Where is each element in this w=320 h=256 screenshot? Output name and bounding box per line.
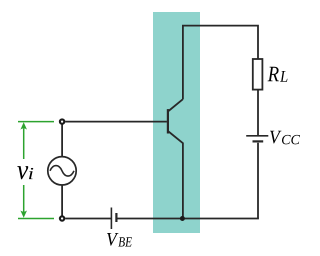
wire: base from input terminal to transistor (65, 121, 167, 123)
transistor Q1 collector lead (168, 99, 183, 111)
battery VBE plate - (short thick) (115, 213, 117, 222)
transistor Q1 base bar (167, 109, 169, 133)
label vi-i (29, 168, 33, 179)
resistor RL (253, 59, 263, 90)
label VCC-V (270, 131, 281, 144)
wire: resistor to battery VCC (257, 90, 259, 135)
wire: collector up and top to right side (183, 26, 258, 100)
arrowhead down (green) (20, 211, 27, 218)
label VCC-CC (282, 135, 300, 144)
arrow shaft lower (green) (23, 185, 25, 212)
terminal (input top) (60, 119, 64, 123)
label vi-v (17, 166, 28, 179)
highlight band (active region) (153, 12, 200, 233)
transistor Q1 emitter lead (168, 131, 183, 219)
wire: battery VCC down to bottom rail (257, 143, 259, 219)
battery VCC plate + (long) (246, 135, 268, 137)
label RL-L (280, 71, 288, 82)
dimension line bottom (green) (18, 218, 54, 220)
battery VBE plate + (long) (110, 208, 112, 230)
dimension line top (green) (18, 121, 54, 123)
terminal (input bottom) (60, 216, 64, 220)
junction node (emitter to bottom rail) (180, 216, 185, 221)
wire: top terminal down to source (61, 124, 63, 157)
battery VCC plate - (short thick) (253, 140, 264, 142)
source vi circle (48, 157, 76, 185)
wire: bottom rail right of VBE (116, 218, 259, 220)
label VBE-V (107, 233, 118, 246)
wire: source down to bottom terminal (61, 185, 63, 216)
arrow shaft upper (green) (23, 129, 25, 160)
source vi sine wave (50, 166, 74, 177)
arrowhead up (green) (20, 122, 27, 129)
label RL-R (268, 67, 279, 81)
label VBE-BE (118, 237, 132, 246)
wire: bottom rail left of VBE (65, 218, 111, 220)
